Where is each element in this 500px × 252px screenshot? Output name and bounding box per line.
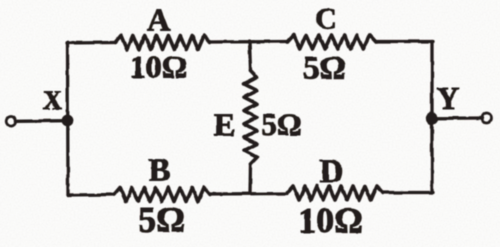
svg-text:E: E <box>214 107 235 143</box>
wire top rail middle segment <box>210 40 287 44</box>
wire terminal Y lead <box>432 116 482 120</box>
svg-text:10Ω: 10Ω <box>130 49 188 85</box>
resistor E <box>244 71 257 165</box>
wire bottom rail right segment <box>383 191 433 194</box>
svg-text:Y: Y <box>436 80 459 116</box>
wire middle vertical top lead <box>250 41 251 71</box>
svg-text:5Ω: 5Ω <box>261 107 301 142</box>
svg-text:10Ω: 10Ω <box>298 201 363 241</box>
wire left vertical <box>66 42 70 195</box>
wire terminal X lead <box>16 119 66 123</box>
svg-text:5Ω: 5Ω <box>138 200 185 240</box>
terminal Y open circle <box>482 113 492 123</box>
node X junction dot <box>62 115 74 127</box>
resistor D <box>287 186 383 200</box>
wire bottom rail left segment <box>68 193 114 197</box>
terminal X open circle <box>6 117 16 127</box>
svg-text:A: A <box>147 2 170 38</box>
svg-text:5Ω: 5Ω <box>303 51 346 87</box>
svg-text:B: B <box>148 153 170 189</box>
svg-text:X: X <box>43 86 62 115</box>
wire bottom rail middle segment <box>210 192 287 196</box>
node Y junction dot <box>426 112 438 124</box>
resistor A <box>115 36 210 50</box>
resistor C <box>287 35 376 49</box>
svg-text:D: D <box>320 154 344 190</box>
wire right vertical <box>430 42 433 193</box>
svg-text:C: C <box>315 3 337 36</box>
wire top rail right segment <box>376 40 433 43</box>
wire top rail left segment <box>67 41 115 45</box>
wire middle vertical bottom lead <box>248 164 252 194</box>
resistor B <box>114 188 210 202</box>
